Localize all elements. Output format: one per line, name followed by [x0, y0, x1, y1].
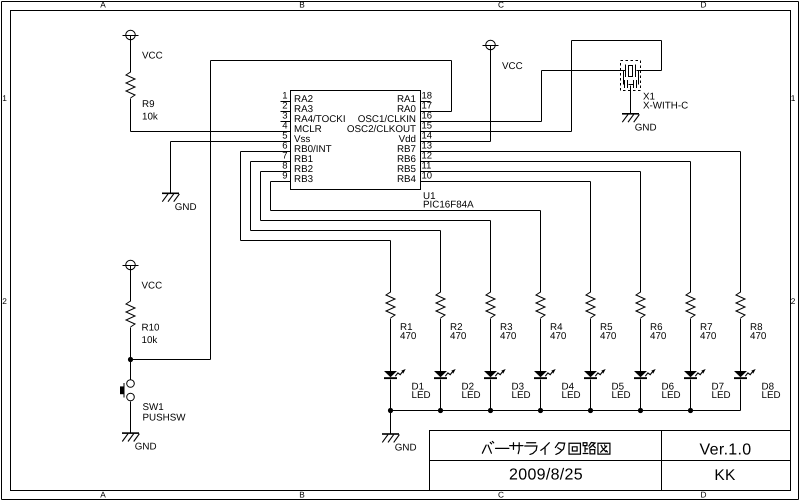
- node bus junction 7: [688, 408, 693, 413]
- svg-text:B: B: [299, 490, 305, 500]
- wire bus to ground: [390, 411, 392, 434]
- resistor R10 10k: [126, 301, 160, 346]
- svg-text:GND: GND: [135, 442, 157, 453]
- VCC symbol (Vdd): [483, 40, 523, 72]
- wire RB7 pin 13 to R8: [431, 152, 741, 293]
- diode D5 LED: [584, 369, 631, 401]
- resistor R4 470: [536, 292, 567, 342]
- wire D5 to ground bus: [590, 380, 592, 411]
- U1 pin 1 RA2: [281, 91, 314, 105]
- diode D6 LED: [634, 369, 681, 401]
- svg-text:X-WITH-C: X-WITH-C: [643, 101, 688, 112]
- resistor R3 470: [486, 292, 517, 342]
- U1 pin 3 RA4/TOCKI: [281, 111, 346, 125]
- diode D3 LED: [484, 369, 531, 401]
- U1 pin 9 RB3: [281, 171, 314, 185]
- wire D7 to ground bus: [690, 380, 692, 411]
- resistor R9 10k: [126, 72, 158, 123]
- svg-text:470: 470: [600, 331, 617, 342]
- wire OSC2/CLKOUT pin 15 to X1: [431, 41, 662, 132]
- svg-text:470: 470: [700, 331, 717, 342]
- diode D1 LED: [384, 369, 431, 401]
- wire R8 to D8: [740, 319, 742, 372]
- svg-text:D: D: [701, 0, 707, 9]
- wire RB0/INT pin 6 to R1: [241, 152, 391, 293]
- wire OSC1/CLKIN pin 16 to X1: [431, 71, 626, 122]
- svg-text:470: 470: [750, 331, 767, 342]
- wire RB2 pin 8 to R3: [261, 172, 491, 293]
- wire D1 to ground bus: [390, 380, 392, 411]
- wire VCC to R9: [130, 41, 132, 73]
- wire SW1 to ground: [130, 402, 132, 433]
- diode D2 LED: [434, 369, 481, 401]
- wire RA0 pin 17 to SW1 node: [131, 61, 452, 360]
- U1 pin 13 RB7: [397, 141, 432, 155]
- svg-text:470: 470: [650, 331, 667, 342]
- wire R10 to node A: [130, 328, 132, 360]
- wire D3 to ground bus: [490, 380, 492, 411]
- U1 pin 6 RB0/INT: [281, 141, 332, 155]
- svg-text:470: 470: [500, 331, 517, 342]
- wire RB6 pin 12 to R7: [431, 162, 691, 293]
- wire RB5 pin 11 to R6: [431, 172, 641, 293]
- U1 pin 15 OSC2/CLKOUT: [347, 121, 432, 135]
- svg-text:10k: 10k: [142, 112, 158, 123]
- svg-text:PIC16F84A: PIC16F84A: [423, 200, 474, 211]
- svg-text:D: D: [701, 490, 707, 500]
- wire RB3 pin 9 to R4: [271, 182, 541, 293]
- resistor R6 470: [636, 292, 667, 342]
- svg-text:1: 1: [791, 93, 796, 103]
- wire VCC to Vdd pin 14: [431, 51, 491, 142]
- wire D6 to ground bus: [640, 380, 642, 411]
- U1 pin 10 RB4: [397, 171, 432, 185]
- svg-text:2: 2: [2, 296, 7, 306]
- wire R1 to D1: [390, 319, 392, 372]
- U1 pin 11 RB5: [397, 161, 431, 175]
- wire RB4 pin 10 to R5: [431, 182, 591, 293]
- wire R6 to D6: [640, 319, 642, 372]
- wire ground bus: [391, 410, 741, 412]
- U1 pin 16 OSC1/CLKIN: [358, 111, 432, 125]
- wire R5 to D5: [590, 319, 592, 372]
- svg-text:LED: LED: [462, 390, 481, 401]
- svg-text:LED: LED: [662, 390, 681, 401]
- junction node A (R10 / SW1 / RA0): [128, 357, 133, 362]
- IC U1 PIC16F84A: [291, 91, 475, 211]
- title block: [430, 431, 791, 491]
- svg-text:LED: LED: [712, 390, 731, 401]
- svg-text:470: 470: [400, 331, 417, 342]
- wire Vss pin 5 to ground: [171, 142, 281, 193]
- svg-text:LED: LED: [562, 390, 581, 401]
- ground (LED bus): [382, 433, 417, 453]
- svg-text:R9: R9: [142, 99, 155, 110]
- wire D8 to ground bus: [740, 380, 742, 411]
- U1 pin 5 Vss: [281, 131, 311, 145]
- node bus junction 1: [388, 408, 393, 413]
- svg-text:470: 470: [550, 331, 567, 342]
- wire RB1 pin 7 to R2: [251, 162, 441, 293]
- U1 pin 8 RB2: [281, 161, 314, 175]
- svg-text:470: 470: [450, 331, 467, 342]
- U1 pin 4 MCLR: [281, 121, 322, 135]
- svg-text:R10: R10: [142, 323, 161, 334]
- wire R7 to D7: [690, 319, 692, 372]
- wire node A to SW1: [130, 360, 132, 381]
- switch SW1 PUSHSW: [120, 380, 186, 424]
- svg-text:2009/8/25: 2009/8/25: [509, 467, 583, 484]
- node bus junction 3: [488, 408, 493, 413]
- wire D4 to ground bus: [540, 380, 542, 411]
- svg-text:C: C: [498, 490, 504, 500]
- svg-text:VCC: VCC: [502, 61, 523, 72]
- U1 pin 12 RB6: [397, 151, 432, 165]
- resistor R8 470: [736, 292, 767, 342]
- U1 pin 7 RB1: [281, 151, 314, 165]
- wire VCC to R10: [130, 270, 132, 302]
- svg-text:RB4: RB4: [397, 174, 417, 185]
- svg-text:10k: 10k: [142, 335, 158, 346]
- U1 pin 17 RA0: [397, 101, 432, 115]
- diode D4 LED: [534, 369, 581, 401]
- resistor R7 470: [686, 292, 717, 342]
- title text barsa-writer circuit diagram: [482, 441, 610, 454]
- wire R4 to D4: [540, 319, 542, 372]
- resistor R5 470: [586, 292, 617, 342]
- U1 pin 18 RA1: [397, 91, 432, 105]
- svg-text:LED: LED: [612, 390, 631, 401]
- svg-text:LED: LED: [412, 390, 431, 401]
- node bus junction 5: [588, 408, 593, 413]
- resistor R2 470: [436, 292, 467, 342]
- diode D7 LED: [684, 369, 731, 401]
- ground (SW1): [122, 432, 157, 452]
- wire R9 to MCLR pin 4: [131, 99, 281, 132]
- svg-text:1: 1: [2, 93, 7, 103]
- svg-text:KK: KK: [714, 467, 736, 484]
- svg-text:C: C: [498, 0, 504, 9]
- svg-text:RB3: RB3: [294, 174, 314, 185]
- svg-text:VCC: VCC: [142, 51, 163, 62]
- svg-text:9: 9: [282, 171, 287, 182]
- U1 pin 2 RA3: [281, 101, 314, 115]
- svg-text:B: B: [299, 0, 305, 9]
- svg-text:10: 10: [422, 171, 433, 182]
- svg-text:2: 2: [791, 296, 796, 306]
- svg-text:PUSHSW: PUSHSW: [143, 412, 187, 423]
- VCC symbol (R9): [123, 30, 163, 61]
- wire X1 to ground: [630, 86, 632, 114]
- svg-text:VCC: VCC: [142, 281, 163, 292]
- svg-text:LED: LED: [512, 390, 531, 401]
- node bus junction 6: [638, 408, 643, 413]
- svg-text:LED: LED: [762, 390, 781, 401]
- resistor R1 470: [386, 292, 417, 342]
- svg-text:GND: GND: [175, 202, 197, 213]
- wire R3 to D3: [490, 319, 492, 372]
- wire D2 to ground bus: [440, 380, 442, 411]
- diode D8 LED: [734, 369, 781, 401]
- node bus junction 2: [438, 408, 443, 413]
- U1 pin 14 Vdd: [399, 131, 433, 145]
- ground (X1): [622, 113, 657, 133]
- VCC symbol (R10): [123, 260, 163, 291]
- wire R2 to D2: [440, 319, 442, 372]
- crystal X1 X-WITH-C: [621, 61, 689, 112]
- svg-text:GND: GND: [635, 122, 657, 133]
- svg-text:A: A: [100, 0, 106, 9]
- svg-text:Ver.1.0: Ver.1.0: [700, 442, 752, 459]
- ground (Vss): [162, 193, 197, 213]
- svg-text:A: A: [100, 490, 106, 500]
- svg-text:GND: GND: [395, 443, 417, 454]
- node bus junction 4: [538, 408, 543, 413]
